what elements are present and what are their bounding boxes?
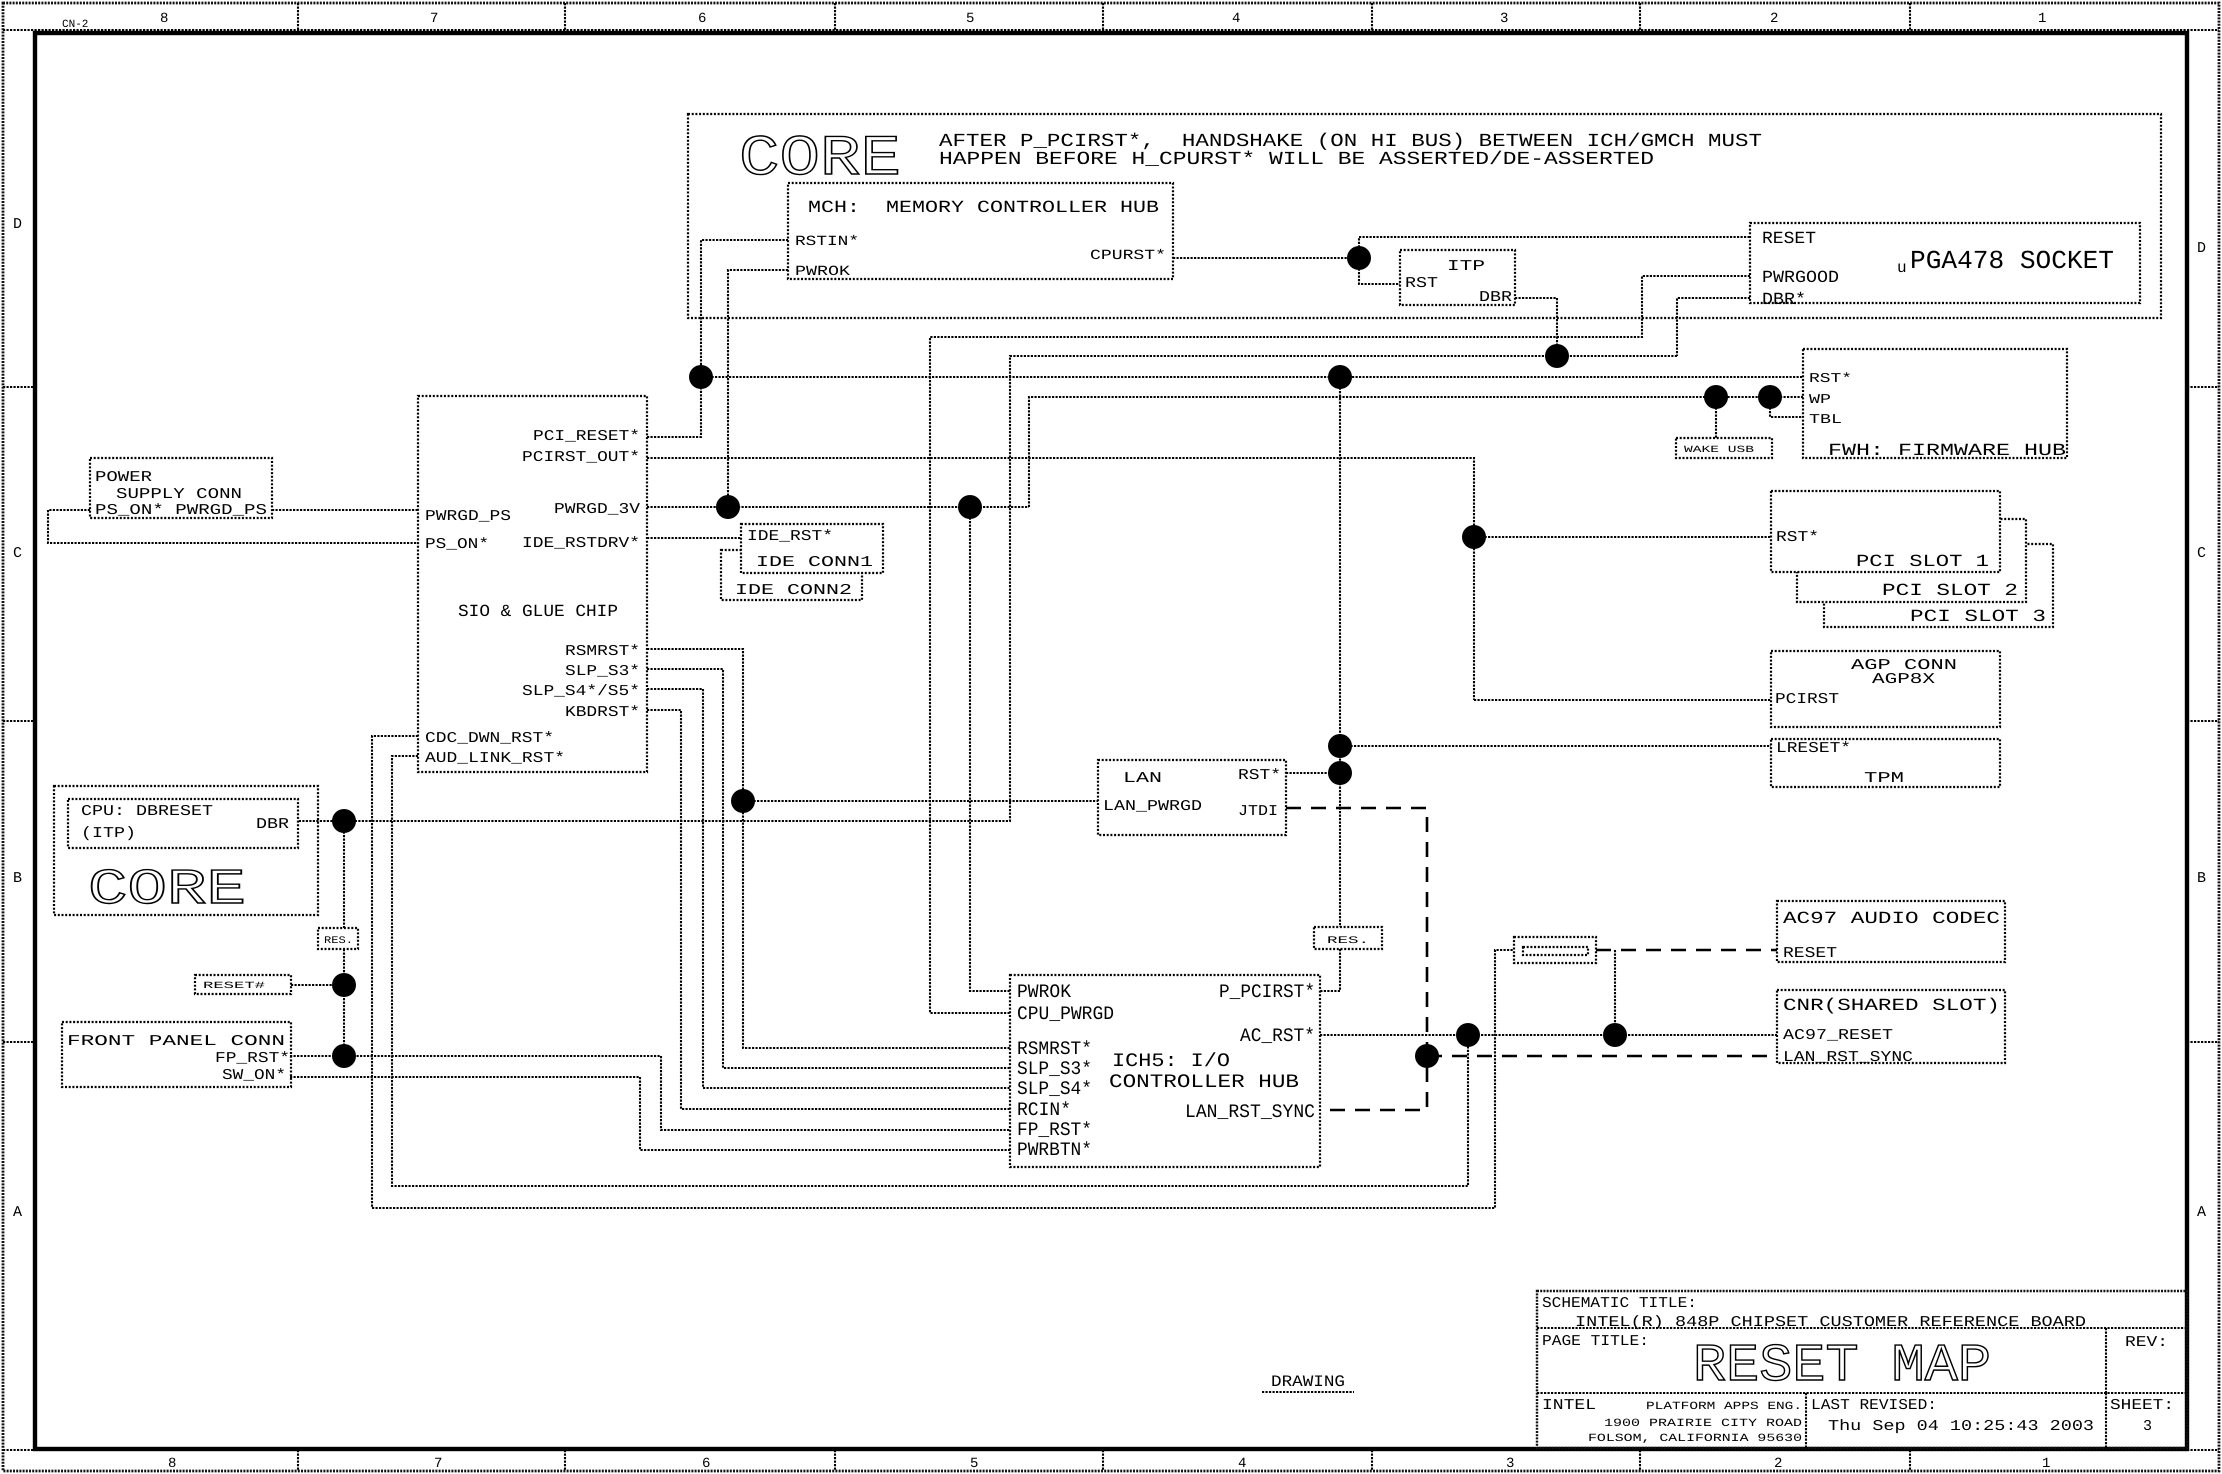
svg-text:POWER: POWER	[95, 469, 152, 486]
svg-text:DBR: DBR	[256, 816, 289, 833]
svg-text:RST*: RST*	[1776, 529, 1819, 546]
WAKE USB box	[1676, 438, 1772, 458]
svg-text:INTEL: INTEL	[1542, 1397, 1596, 1414]
svg-text:AC97_RESET: AC97_RESET	[1783, 1027, 1893, 1044]
svg-text:JTDI: JTDI	[1238, 803, 1278, 820]
wire LAN_PWRGD row	[743, 800, 1098, 802]
svg-text:PCIRST_OUT*: PCIRST_OUT*	[522, 449, 640, 466]
svg-text:D: D	[2197, 240, 2206, 257]
junction dot WP row TBL	[1758, 385, 1782, 409]
svg-text:RCIN*: RCIN*	[1017, 1099, 1071, 1121]
svg-text:PCI SLOT 1: PCI SLOT 1	[1856, 553, 1989, 572]
wire PCIRST_OUT* row	[647, 458, 1474, 700]
junction dot LRESET*	[1328, 734, 1352, 758]
svg-text:6: 6	[698, 11, 706, 27]
svg-text:REV:: REV:	[2125, 1334, 2168, 1351]
svg-text:DRAWING: DRAWING	[1271, 1373, 1345, 1391]
svg-text:PWRBTN*: PWRBTN*	[1017, 1139, 1092, 1161]
wire PS_ON* loop to SIO	[48, 510, 418, 543]
wire RST* to PCI slots	[1474, 536, 1771, 538]
svg-text:TPM: TPM	[1864, 770, 1904, 787]
RES box near LAN	[1314, 927, 1382, 949]
CPU DBRESET outer CORE box	[54, 786, 318, 915]
svg-text:PCIRST: PCIRST	[1775, 691, 1839, 708]
svg-text:RESET MAP: RESET MAP	[1693, 1336, 1991, 1396]
svg-text:ICH5: I/O: ICH5: I/O	[1112, 1050, 1230, 1072]
AGP CONN box	[1771, 651, 2000, 727]
svg-text:CORE: CORE	[88, 862, 246, 919]
svg-text:3: 3	[1506, 1456, 1514, 1472]
wire AUD_LINK_RST* to AC_RST*	[392, 756, 1468, 1186]
svg-text:3: 3	[1500, 11, 1508, 27]
svg-text:INTEL(R) 848P CHIPSET CUSTOMER: INTEL(R) 848P CHIPSET CUSTOMER REFERENCE…	[1575, 1314, 2086, 1331]
svg-text:5: 5	[966, 11, 974, 27]
junction dot RESET#	[332, 973, 356, 997]
svg-text:MCH: MEMORY CONTROLLER HUB: MCH: MEMORY CONTROLLER HUB	[808, 199, 1159, 218]
svg-text:PCI SLOT 2: PCI SLOT 2	[1882, 582, 2018, 601]
svg-text:LAN_RST_SYNC: LAN_RST_SYNC	[1185, 1101, 1315, 1123]
svg-text:RESET: RESET	[1783, 945, 1837, 962]
svg-text:LAN: LAN	[1123, 770, 1162, 787]
svg-text:RESET#: RESET#	[203, 980, 266, 991]
svg-text:IDE CONN1: IDE CONN1	[756, 554, 873, 571]
AC97 AUDIO CODEC box	[1777, 901, 2005, 962]
svg-text:SIO & GLUE CHIP: SIO & GLUE CHIP	[458, 603, 618, 622]
svg-text:PS_ON* PWRGD_PS: PS_ON* PWRGD_PS	[95, 502, 267, 519]
wire RST* row PCI_RESET* net to FWH RST*	[701, 376, 1803, 378]
svg-text:CPURST*: CPURST*	[1090, 248, 1166, 264]
svg-text:LAN_RST_SYNC: LAN_RST_SYNC	[1783, 1049, 1913, 1066]
svg-text:CPU_PWRGD: CPU_PWRGD	[1017, 1003, 1114, 1025]
svg-text:DBR*: DBR*	[1762, 291, 1806, 310]
MCH: memory controller hub box	[788, 183, 1173, 279]
svg-text:FP_RST*: FP_RST*	[215, 1050, 290, 1067]
svg-text:u: u	[1897, 259, 1907, 277]
svg-text:A: A	[2197, 1204, 2206, 1221]
PCI SLOT 3 box	[1824, 544, 2053, 627]
svg-text:AUD_LINK_RST*: AUD_LINK_RST*	[425, 750, 565, 767]
svg-text:PCI_RESET*: PCI_RESET*	[533, 428, 640, 445]
RESET# small box	[195, 975, 291, 994]
wire JTDI dashed to LAN_RST_SYNC	[1286, 808, 1427, 1110]
junction dot RSMRST* / LAN_PWRGD	[731, 789, 755, 813]
wire PWROK drop to ICH5	[970, 507, 1010, 991]
wire PWRGD_PS to SIO	[272, 509, 418, 511]
svg-text:RSMRST*: RSMRST*	[1017, 1038, 1092, 1060]
junction dot CPURST*	[1347, 246, 1371, 270]
svg-text:CNR(SHARED SLOT): CNR(SHARED SLOT)	[1783, 997, 2000, 1016]
wire FP_RST* to ICH5	[290, 1056, 1010, 1130]
svg-text:1900 PRAIRIE CITY ROAD: 1900 PRAIRIE CITY ROAD	[1604, 1418, 1803, 1430]
svg-text:TBL: TBL	[1809, 413, 1842, 428]
wire PWRGD_3V row	[647, 506, 1029, 508]
wire DBR vertical chain	[343, 821, 345, 928]
bottom ruler strip line	[3, 1449, 2219, 1451]
top ruler strip line	[3, 29, 2219, 31]
junction dot RST* row left	[689, 365, 713, 389]
svg-text:LAST REVISED:: LAST REVISED:	[1811, 1397, 1937, 1414]
wire SW_ON* to PWRBTN*	[290, 1077, 1010, 1150]
svg-text:PWRGD_PS: PWRGD_PS	[425, 508, 511, 525]
svg-text:3: 3	[2143, 1418, 2152, 1435]
svg-text:PWRGD_3V: PWRGD_3V	[554, 501, 640, 518]
wire CPURST* from MCH	[1173, 257, 1359, 259]
wire PCIRST to AGP	[1474, 699, 1771, 701]
PCI SLOT 2 box	[1797, 519, 2026, 602]
uPGA478 SOCKET box	[1750, 223, 2140, 303]
svg-text:4: 4	[1232, 11, 1240, 27]
svg-text:7: 7	[430, 11, 438, 27]
svg-text:FWH: FIRMWARE HUB: FWH: FIRMWARE HUB	[1828, 442, 2066, 461]
wire KBDRST* to RCIN*	[647, 710, 1010, 1109]
CORE region outline box	[688, 114, 2161, 318]
junction dot WP row WAKE USB	[1704, 385, 1728, 409]
svg-text:A: A	[13, 1204, 22, 1221]
dashed branch to CNR LAN_RST_SYNC	[1427, 1055, 1777, 1058]
wire MCH RSTIN* / SIO PCI_RESET* net	[647, 240, 788, 437]
svg-text:SLP_S4*/S5*: SLP_S4*/S5*	[522, 683, 640, 700]
svg-text:4: 4	[1238, 1456, 1246, 1472]
junction dot PWRGD_3V / MCH PWROK	[716, 495, 740, 519]
POWER SUPPLY CONN box	[90, 458, 272, 518]
wire AC97 RESET riser	[1614, 950, 1616, 1035]
svg-text:FRONT PANEL CONN: FRONT PANEL CONN	[67, 1033, 285, 1050]
svg-text:C: C	[2197, 545, 2206, 562]
svg-text:2: 2	[1774, 1456, 1782, 1472]
svg-text:1: 1	[2038, 11, 2046, 27]
svg-text:SCHEMATIC TITLE:: SCHEMATIC TITLE:	[1542, 1295, 1697, 1312]
svg-text:RST: RST	[1405, 275, 1438, 292]
junction dot AC_RST* / AUD_LINK	[1456, 1023, 1480, 1047]
wire WAKE USB drop	[1715, 397, 1717, 438]
svg-text:2: 2	[1770, 11, 1778, 27]
wire PGA478 DBR* elbow	[1677, 298, 1750, 356]
svg-text:8: 8	[168, 1456, 176, 1472]
svg-text:LAN_PWRGD: LAN_PWRGD	[1103, 798, 1202, 815]
svg-text:KBDRST*: KBDRST*	[565, 704, 640, 721]
svg-text:RES.: RES.	[1327, 936, 1369, 947]
svg-text:HAPPEN BEFORE H_CPURST* WILL B: HAPPEN BEFORE H_CPURST* WILL BE ASSERTED…	[939, 149, 1654, 170]
RES box in DBR chain	[318, 928, 358, 949]
title block outer box	[1537, 1291, 2187, 1448]
PCI SLOT 1 box	[1771, 491, 2000, 572]
svg-text:B: B	[2197, 870, 2206, 887]
svg-text:7: 7	[434, 1456, 442, 1472]
wire SLP_S3*	[647, 669, 1010, 1068]
svg-text:Thu Sep 04 10:25:43 2003: Thu Sep 04 10:25:43 2003	[1828, 1418, 2094, 1435]
LAN box	[1098, 760, 1286, 835]
svg-text:CDC_DWN_RST*: CDC_DWN_RST*	[425, 730, 554, 747]
junction dot DBR row	[332, 809, 356, 833]
wire CDC_DWN_RST* to AC97 connector	[372, 736, 1514, 1208]
CNR shared slot box	[1777, 990, 2005, 1063]
wire TPM LRESET*	[1340, 745, 1771, 747]
svg-text:RES.: RES.	[324, 936, 353, 947]
svg-text:PAGE TITLE:: PAGE TITLE:	[1542, 1333, 1649, 1350]
ITP box	[1400, 250, 1515, 305]
IDE CONN2 box	[721, 550, 862, 600]
svg-text:PWROK: PWROK	[795, 264, 851, 280]
svg-text:FOLSOM, CALIFORNIA 95630: FOLSOM, CALIFORNIA 95630	[1588, 1433, 1802, 1445]
svg-text:CN-2: CN-2	[62, 19, 88, 31]
svg-text:5: 5	[970, 1456, 978, 1472]
wire RSMRST* to ICH5 and LAN_PWRGD	[647, 649, 1010, 1048]
AC97 connector symbol outer	[1514, 937, 1596, 963]
svg-text:6: 6	[702, 1456, 710, 1472]
svg-text:8: 8	[160, 11, 168, 27]
svg-text:LRESET*: LRESET*	[1776, 740, 1851, 757]
junction dot RST* row at x=1340	[1328, 365, 1352, 389]
svg-text:PS_ON*: PS_ON*	[425, 536, 489, 553]
svg-text:CORE: CORE	[739, 128, 901, 192]
SIO & GLUE CHIP box	[418, 396, 647, 772]
junction dot AC_RST* / AC97 riser	[1603, 1023, 1627, 1047]
svg-text:WAKE USB: WAKE USB	[1684, 444, 1754, 455]
svg-text:IDE CONN2: IDE CONN2	[735, 582, 852, 599]
FRONT PANEL CONN box	[62, 1022, 291, 1087]
wire ITP DBR to row C	[1515, 298, 1557, 356]
svg-text:CONTROLLER HUB: CONTROLLER HUB	[1109, 1071, 1299, 1093]
wire LAN RST* stub	[1286, 772, 1340, 774]
wire TBL elbow	[1770, 397, 1803, 417]
svg-text:SHEET:: SHEET:	[2110, 1397, 2174, 1414]
svg-text:DBR: DBR	[1479, 289, 1512, 306]
svg-text:RSTIN*: RSTIN*	[795, 234, 859, 250]
top ruler dividers	[298, 3, 1910, 30]
wire SLP_S4*	[647, 689, 1010, 1088]
svg-text:RST*: RST*	[1809, 372, 1852, 387]
zone ticks left border	[3, 387, 35, 1042]
svg-text:AGP8X: AGP8X	[1872, 671, 1935, 688]
bottom ruler dividers	[298, 1450, 1910, 1471]
junction dot LAN RST*	[1328, 761, 1352, 785]
wire CPURST* up to PGA478 RESET	[1359, 237, 1750, 258]
title block row dividers	[1537, 1328, 2187, 1393]
zone ticks right border	[2187, 387, 2219, 1042]
svg-text:RESET: RESET	[1762, 230, 1816, 249]
wire MCH PWROK drop to PWRGD_3V	[728, 270, 788, 507]
AC97 connector symbol inner bar	[1523, 947, 1588, 955]
svg-text:B: B	[13, 870, 22, 887]
svg-text:IDE_RSTDRV*: IDE_RSTDRV*	[522, 535, 640, 552]
title block column dividers	[1806, 1328, 2106, 1448]
dashed wire connector to AC97 RESET	[1596, 949, 1777, 952]
svg-text:ITP: ITP	[1447, 258, 1485, 275]
wire row C DBR net	[298, 356, 1677, 821]
svg-text:C: C	[13, 545, 22, 562]
svg-text:PGA478 SOCKET: PGA478 SOCKET	[1910, 246, 2114, 276]
svg-text:1: 1	[2042, 1456, 2050, 1472]
wire WP row PWRGD_3V to FWH WP	[1029, 397, 1803, 507]
svg-text:RSMRST*: RSMRST*	[565, 643, 640, 660]
svg-text:SW_ON*: SW_ON*	[222, 1067, 286, 1084]
junction dot ITP DBR on row C	[1545, 344, 1569, 368]
svg-text:AC_RST*: AC_RST*	[1240, 1025, 1315, 1047]
svg-text:IDE_RST*: IDE_RST*	[747, 528, 833, 545]
svg-text:FP_RST*: FP_RST*	[1017, 1119, 1092, 1141]
svg-text:PLATFORM APPS ENG.: PLATFORM APPS ENG.	[1646, 1401, 1802, 1413]
svg-text:P_PCIRST*: P_PCIRST*	[1219, 981, 1315, 1003]
svg-text:SLP_S4*: SLP_S4*	[1017, 1078, 1092, 1100]
svg-text:RST*: RST*	[1238, 767, 1281, 784]
IDE CONN1 box	[741, 524, 883, 573]
svg-text:WP: WP	[1809, 393, 1831, 408]
svg-text:SUPPLY CONN: SUPPLY CONN	[116, 486, 242, 503]
svg-text:AC97 AUDIO CODEC: AC97 AUDIO CODEC	[1783, 910, 2000, 929]
wire IDE_RSTDRV* to IDE_RST*	[647, 537, 741, 539]
junction dot PCIRST_OUT* fanout	[1462, 525, 1486, 549]
FWH firmware hub box	[1803, 349, 2067, 458]
svg-text:CPU: DBRESET: CPU: DBRESET	[81, 803, 213, 820]
ICH5 I/O controller hub box	[1010, 975, 1320, 1167]
svg-text:PCI SLOT 3: PCI SLOT 3	[1910, 608, 2046, 627]
svg-text:D: D	[13, 216, 22, 233]
wire vertical PCI_RESET net down to RES and P_PCIRST*	[1339, 377, 1341, 927]
CPU DBRESET inner box	[68, 799, 298, 848]
svg-text:SLP_S3*: SLP_S3*	[565, 663, 640, 680]
junction dot PWRGD_3V / ICH5 PWROK	[958, 495, 982, 519]
svg-text:SLP_S3*: SLP_S3*	[1017, 1058, 1092, 1080]
wire RESET# stub	[291, 984, 344, 986]
svg-text:(ITP): (ITP)	[81, 825, 136, 842]
TPM box	[1771, 739, 2000, 787]
wire PGA478 PWRGOOD elbow	[930, 276, 1750, 1013]
junction dot FP_RST*	[332, 1044, 356, 1068]
wire AC_RST* row to CNR AC97_RESET	[1320, 1034, 1777, 1036]
wire CPURST* down to ITP RST	[1359, 258, 1400, 284]
junction dot LAN_RST_SYNC	[1415, 1044, 1439, 1068]
svg-text:PWROK: PWROK	[1017, 981, 1072, 1003]
svg-text:PWRGOOD: PWRGOOD	[1762, 269, 1839, 288]
